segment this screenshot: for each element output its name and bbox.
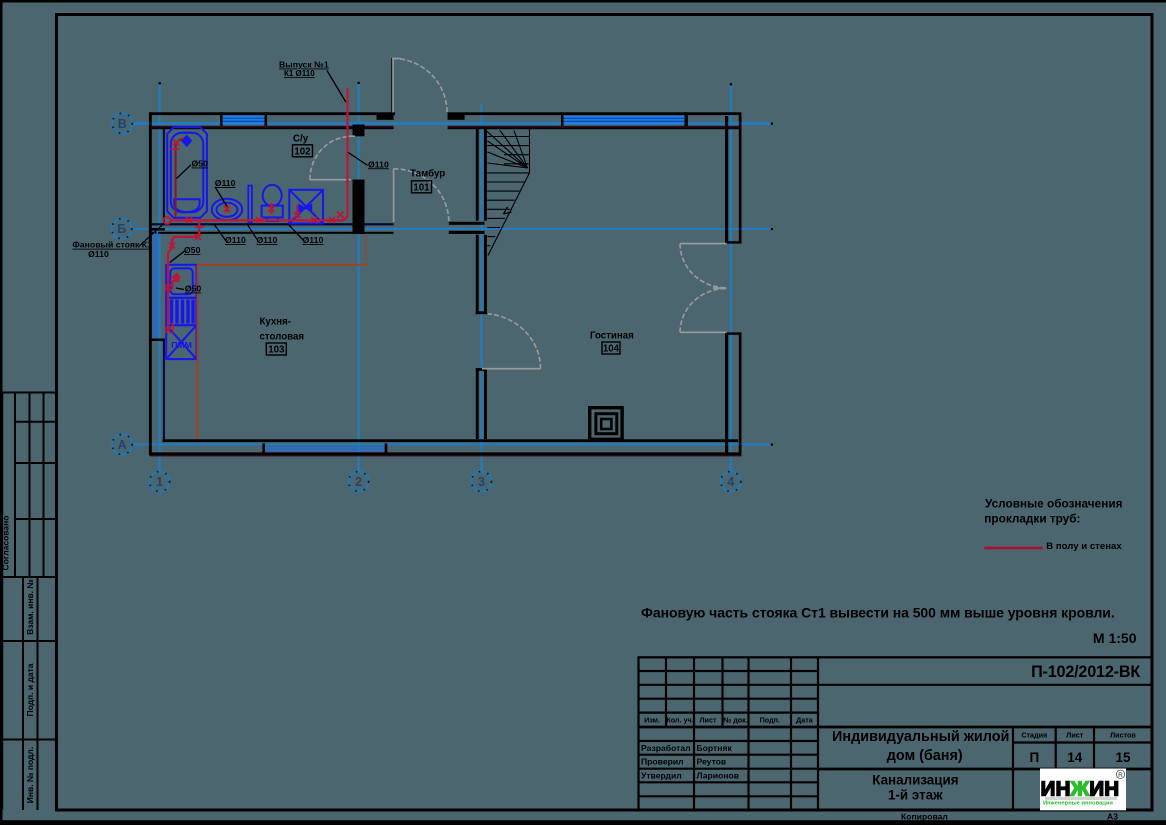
svg-text:Ø110: Ø110 xyxy=(88,249,109,259)
svg-text:Канализация: Канализация xyxy=(872,773,958,788)
svg-text:Подп. и дата: Подп. и дата xyxy=(25,663,35,716)
svg-text:К1 Ø110: К1 Ø110 xyxy=(284,69,315,78)
svg-text:14: 14 xyxy=(1067,750,1083,765)
svg-text:2: 2 xyxy=(355,475,362,489)
svg-text:R: R xyxy=(1118,772,1123,779)
svg-text:Лист: Лист xyxy=(1066,730,1083,739)
svg-text:Ø50: Ø50 xyxy=(184,245,201,255)
svg-text:Выпуск №1: Выпуск №1 xyxy=(279,60,329,70)
svg-text:Взам. инв. №: Взам. инв. № xyxy=(25,579,35,635)
svg-text:3: 3 xyxy=(478,475,485,489)
svg-text:Реутов: Реутов xyxy=(697,757,727,767)
svg-text:ПММ: ПММ xyxy=(171,340,192,350)
svg-text:В: В xyxy=(118,117,127,131)
svg-text:Ø110: Ø110 xyxy=(257,235,278,245)
svg-text:Инв. № подл.: Инв. № подл. xyxy=(25,747,35,803)
svg-text:102: 102 xyxy=(294,147,310,158)
svg-text:Условные обозначения: Условные обозначения xyxy=(985,497,1123,511)
svg-text:Копировал: Копировал xyxy=(901,811,948,821)
svg-text:Ø50: Ø50 xyxy=(192,159,209,169)
svg-text:Фановую часть стояка Ст1 вывес: Фановую часть стояка Ст1 вывести на 500 … xyxy=(641,605,1115,621)
svg-text:Листов: Листов xyxy=(1110,730,1136,739)
svg-text:Изм.: Изм. xyxy=(644,715,660,724)
svg-text:Проверил: Проверил xyxy=(641,757,684,767)
svg-text:Ø50: Ø50 xyxy=(185,284,202,294)
svg-text:Ø110: Ø110 xyxy=(303,235,324,245)
svg-text:Ø110: Ø110 xyxy=(215,178,236,188)
svg-text:Дата: Дата xyxy=(796,715,814,724)
svg-text:В полу и стенах: В полу и стенах xyxy=(1046,541,1122,552)
svg-text:П: П xyxy=(1029,750,1039,765)
svg-text:104: 104 xyxy=(603,344,620,355)
svg-text:А: А xyxy=(118,438,127,452)
svg-text:прокладки труб:: прокладки труб: xyxy=(984,512,1080,526)
svg-text:4: 4 xyxy=(727,475,734,489)
svg-text:С/у: С/у xyxy=(293,134,309,145)
svg-text:А3: А3 xyxy=(1107,811,1118,821)
svg-text:Б: Б xyxy=(117,222,126,236)
svg-text:Утвердил: Утвердил xyxy=(641,771,682,781)
svg-text:1: 1 xyxy=(156,475,163,489)
svg-text:103: 103 xyxy=(268,345,285,356)
svg-text:Лист: Лист xyxy=(700,715,717,724)
svg-text:Гостиная: Гостиная xyxy=(590,331,634,342)
svg-text:М 1:50: М 1:50 xyxy=(1093,630,1137,646)
svg-text:Согласовано: Согласовано xyxy=(1,516,11,571)
svg-text:Стадия: Стадия xyxy=(1021,730,1047,739)
svg-text:101: 101 xyxy=(413,183,430,194)
svg-text:Тамбур: Тамбур xyxy=(410,169,445,180)
svg-text:Ø110: Ø110 xyxy=(225,235,246,245)
svg-text:Разработал: Разработал xyxy=(641,743,691,753)
svg-text:Ларионов: Ларионов xyxy=(697,771,740,781)
svg-text:Бортняк: Бортняк xyxy=(697,743,733,753)
svg-text:Индивидуальный жилой: Индивидуальный жилой xyxy=(832,729,1009,745)
svg-text:дом (баня): дом (баня) xyxy=(887,748,963,764)
svg-text:№ док.: № док. xyxy=(723,715,748,724)
svg-text:Инженерные инновации: Инженерные инновации xyxy=(1043,801,1113,807)
svg-text:столовая: столовая xyxy=(260,332,305,343)
svg-text:1-й этаж: 1-й этаж xyxy=(888,788,943,803)
svg-text:Подп.: Подп. xyxy=(760,715,780,724)
svg-text:Кол. уч.: Кол. уч. xyxy=(666,715,693,724)
svg-text:15: 15 xyxy=(1115,750,1131,765)
svg-text:Кухня-: Кухня- xyxy=(260,317,292,328)
svg-text:П-102/2012-ВК: П-102/2012-ВК xyxy=(1031,663,1140,681)
svg-text:Ø110: Ø110 xyxy=(368,159,389,169)
